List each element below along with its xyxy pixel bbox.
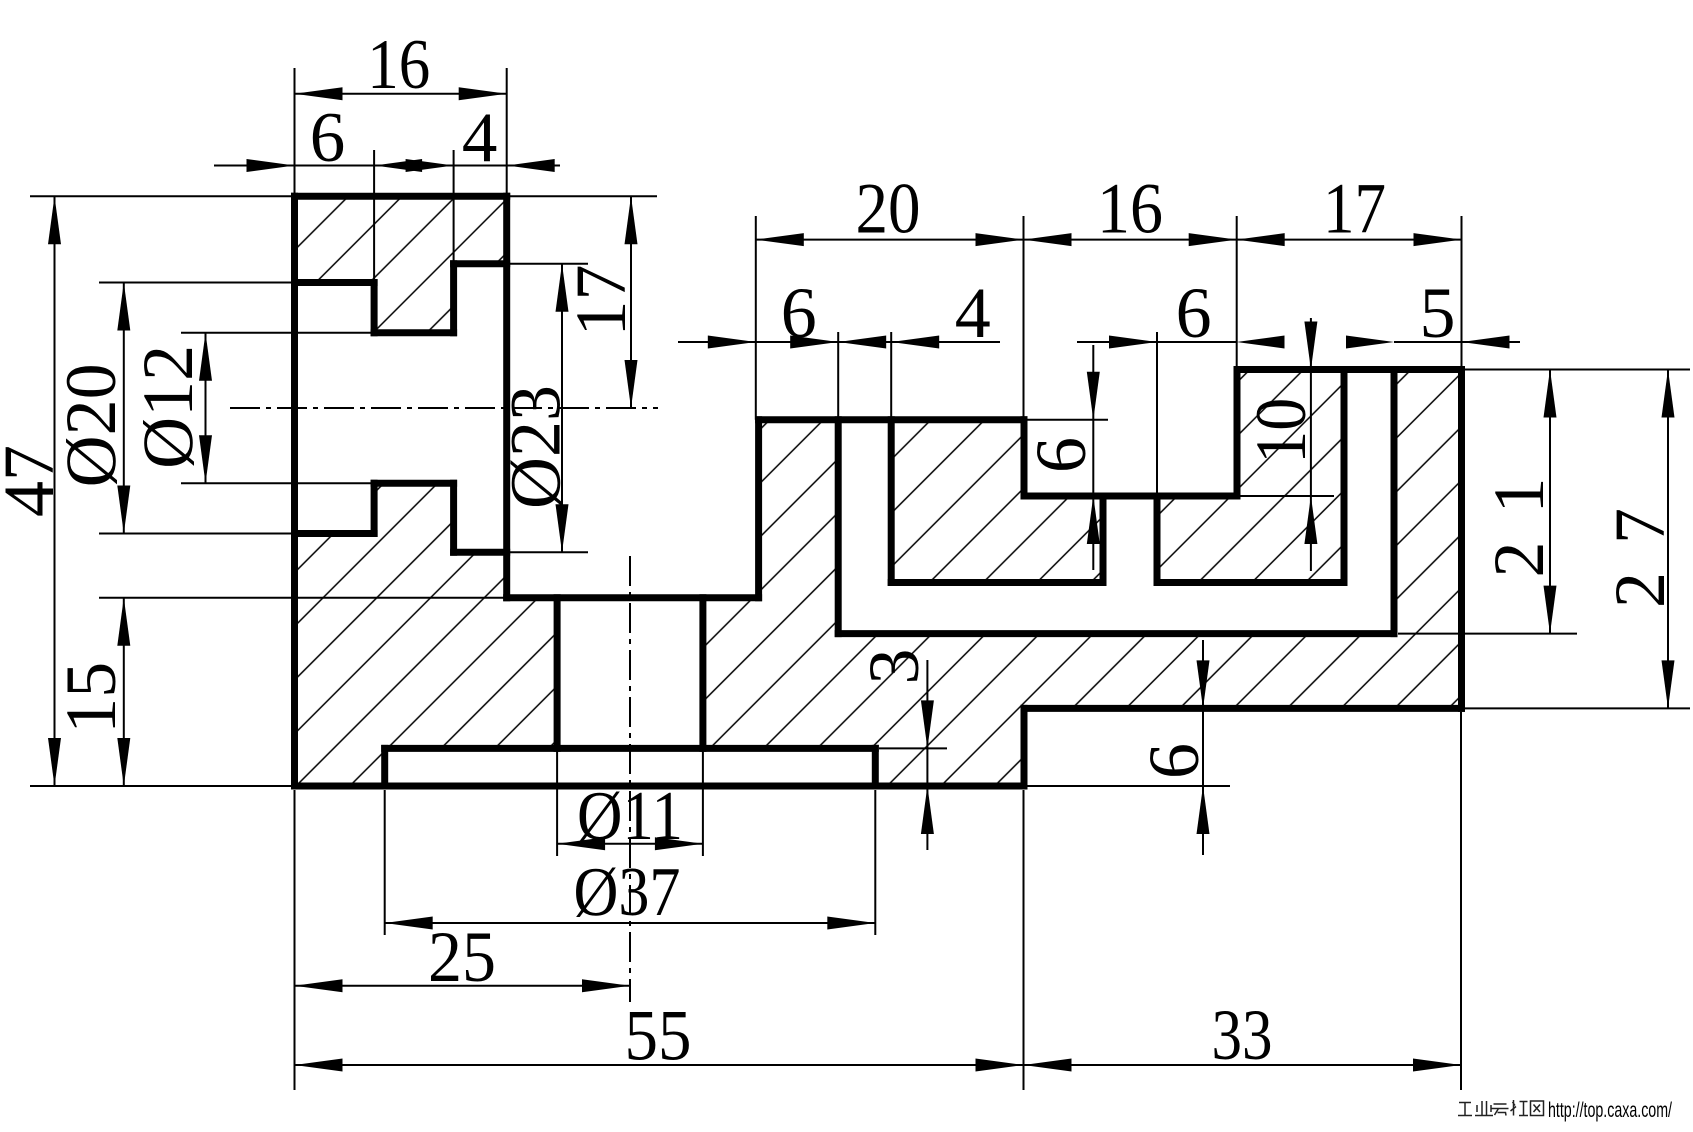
channel ceiling left (891, 579, 1103, 586)
arrows dim 55 (295, 1059, 343, 1072)
glyph she (1511, 1100, 1529, 1116)
thick outlines (295, 196, 1462, 786)
L-block right wall (1341, 370, 1348, 583)
svg-text:10: 10 (1241, 398, 1321, 464)
recess O37 top wall (385, 745, 876, 752)
svg-text:5: 5 (1420, 273, 1456, 353)
arrows dim 20/16/17 (756, 233, 804, 246)
svg-text:Ø12: Ø12 (128, 345, 208, 469)
glyph yun (1492, 1104, 1509, 1116)
svg-text:25: 25 (428, 917, 496, 997)
arrows dim 16 hub (295, 87, 343, 100)
glyph ye (1475, 1101, 1493, 1116)
svg-text:4: 4 (955, 273, 991, 353)
hatch: hub top block (295, 196, 507, 332)
dim line O12 (205, 333, 207, 484)
dim line 5 (1394, 341, 1520, 343)
svg-text:Ø11: Ø11 (577, 778, 683, 855)
hub top face (295, 193, 507, 200)
svg-text:6: 6 (1134, 743, 1214, 779)
svg-text:6: 6 (310, 99, 346, 177)
ext 47 bottom (30, 785, 292, 787)
svg-text:3: 3 (854, 649, 934, 685)
L-block lower-left wall (1154, 496, 1161, 583)
glyph gong (1458, 1103, 1472, 1116)
ext y369.5 right (1463, 369, 1690, 371)
arrows dim O20 (117, 283, 130, 331)
ext x506.7 top (506, 68, 508, 194)
top-right top surface (1237, 366, 1462, 373)
slot right wall (888, 420, 895, 583)
bore O23 bottom wall (454, 549, 507, 556)
recess O37 right wall (872, 748, 879, 786)
bore O23 top wall (454, 260, 507, 267)
ext x374.1 (373, 150, 375, 283)
right structure top surface (759, 416, 1024, 423)
ext web top (15) (99, 597, 507, 599)
bore step bottom left (371, 483, 378, 533)
ext x1023.5 bottom (1023, 790, 1025, 1090)
vertical channel right wall (1391, 370, 1398, 634)
arrows dim 6/4 hub (247, 159, 295, 172)
bottom-right surface (1024, 705, 1462, 712)
channel ceiling right / L-block bottom (1157, 579, 1344, 586)
watermark (1458, 1099, 1672, 1122)
arrows dim 21 (1544, 370, 1557, 418)
svg-text:6: 6 (781, 273, 817, 353)
svg-text:17: 17 (561, 265, 641, 337)
ext y419.7 (1024, 419, 1108, 421)
dim line O11 (557, 843, 703, 845)
hole axis centerline (629, 556, 631, 1002)
svg-text:6: 6 (1176, 273, 1212, 353)
step at x1024 (1021, 420, 1028, 496)
ext O23 top (510, 263, 588, 265)
ext O12 top (181, 332, 374, 334)
hatch: hub bottom + web + right structure body (with round hole cut) (295, 370, 1462, 787)
arrows dim 33 (1024, 1059, 1072, 1072)
hole O11 left wall (554, 598, 561, 749)
dim line 21 (1549, 370, 1551, 634)
arrows dim 5 (1346, 336, 1394, 349)
svg-text:6: 6 (1021, 437, 1101, 473)
ext O11 left (556, 750, 558, 856)
dim line 16 (hub top) (295, 93, 507, 95)
dim line O37 (385, 922, 876, 924)
svg-text:20: 20 (856, 169, 921, 249)
svg-text:Ø37: Ø37 (574, 854, 681, 931)
island right wall x1103 (1100, 496, 1107, 583)
arrows dim 6c vertical (1087, 372, 1100, 420)
dim line O23 (561, 264, 563, 553)
bore step top right (450, 264, 457, 333)
hole O11 right wall (699, 598, 706, 749)
arrows dim O37 (385, 917, 433, 930)
ext x294.5 bottom (294, 790, 296, 1090)
svg-text:16: 16 (1097, 169, 1163, 249)
arrows dim 10 (1304, 322, 1317, 370)
dim line 25 (295, 985, 631, 987)
dim line 6 bottom-right (1202, 640, 1204, 855)
bottom step at x1024 (1021, 708, 1028, 786)
dim line 20/16/17 (756, 239, 1462, 241)
channel floor (838, 630, 1394, 637)
arrows dim O23 (556, 264, 569, 312)
ext x891.2 (890, 332, 892, 420)
ext y786 right (1024, 785, 1230, 787)
dim line 47 (54, 196, 56, 786)
dim line 6 (1157-1236) (1077, 341, 1237, 343)
arrows dim 6a/4a right (708, 336, 756, 349)
ext O11 right (702, 750, 704, 856)
arrows dim 47 (48, 196, 61, 244)
bore O20 bottom wall (295, 530, 375, 537)
arrows dim 17 hub (625, 196, 638, 244)
CJK glyphs drawn as strokes (1458, 1100, 1544, 1116)
ext x294.5 top (294, 68, 296, 194)
arrows dim 3 (921, 700, 934, 748)
ext 47 top (30, 195, 292, 197)
hub left face (291, 196, 298, 786)
ext y496 (1237, 495, 1334, 497)
ext x1461.5 top (1461, 216, 1463, 370)
ext y748.35 (3) (879, 747, 947, 749)
ext y708.4 right (1463, 707, 1690, 709)
ext x755.8 (755, 216, 757, 420)
bore O12 bottom wall (374, 480, 454, 487)
ext y633.6 right (1398, 633, 1577, 635)
L-block upper-left wall (1234, 370, 1241, 497)
dim line 10 (1310, 318, 1312, 571)
dim line 3 (926, 660, 928, 850)
svg-text:Ø23: Ø23 (496, 385, 576, 509)
hatch: center-right island block (891, 420, 1103, 583)
ext O23 bottom (510, 551, 588, 553)
svg-text:16: 16 (367, 26, 430, 104)
bore step top left (371, 283, 378, 333)
dim line 15 (123, 598, 125, 786)
right edge (1458, 370, 1465, 709)
dim line 6 vertical right-top (1092, 345, 1094, 570)
hub axis centerline (230, 407, 658, 409)
ext O37 right (874, 790, 876, 935)
hub right face (503, 196, 510, 597)
arrows dim 15 (117, 598, 130, 646)
recess O37 left wall (381, 748, 388, 786)
dim line 6/4 (hub) (214, 165, 560, 167)
ext O12 bottom (181, 482, 374, 484)
ext x1157 (1156, 332, 1158, 496)
arrows dim O12 (199, 333, 212, 381)
dim line 27 (1667, 370, 1669, 709)
arrows dim 27 (1662, 370, 1675, 418)
right structure left face (755, 420, 762, 598)
ext x838.2 (837, 332, 839, 420)
ext O20 top (99, 282, 292, 284)
svg-text:http://top.caxa.com/: http://top.caxa.com/ (1548, 1099, 1672, 1122)
ext x453.6 (453, 150, 455, 264)
svg-text:15: 15 (51, 662, 131, 734)
web top surface (507, 594, 759, 601)
step surface y496 (1024, 493, 1237, 500)
dim line 55/33 (295, 1064, 1462, 1066)
arrows dim O11 (557, 837, 605, 850)
svg-text:Ø20: Ø20 (51, 363, 131, 487)
glyph qu (1531, 1101, 1544, 1116)
centerlines (230, 408, 658, 1002)
arrows dim 25 (295, 979, 343, 992)
ext x1236.7 (1236, 216, 1238, 370)
slot left wall (835, 420, 842, 634)
ext hub top right (509, 195, 657, 197)
hatch: L-shaped island block (1157, 370, 1344, 583)
ext x1023.5 (1023, 216, 1025, 420)
ext O20 bottom (99, 533, 292, 535)
svg-text:55: 55 (625, 996, 692, 1076)
svg-text:17: 17 (1323, 169, 1386, 249)
arrows dim 6br (1197, 660, 1210, 708)
bore O12 top wall (374, 329, 454, 336)
arrows dim 6b (1109, 336, 1157, 349)
svg-text:33: 33 (1212, 995, 1273, 1075)
dim line row 6/4 right (678, 341, 1000, 343)
ext x1461 bottom (1460, 712, 1462, 1090)
bore O20 top wall (295, 279, 375, 286)
dim line 17 (hub vertical) (630, 196, 632, 408)
svg-text:4: 4 (462, 99, 498, 177)
ext O37 left (384, 790, 386, 935)
bottom face (295, 783, 1025, 790)
bore step bottom right (450, 483, 457, 552)
dim line O20 (123, 283, 125, 534)
